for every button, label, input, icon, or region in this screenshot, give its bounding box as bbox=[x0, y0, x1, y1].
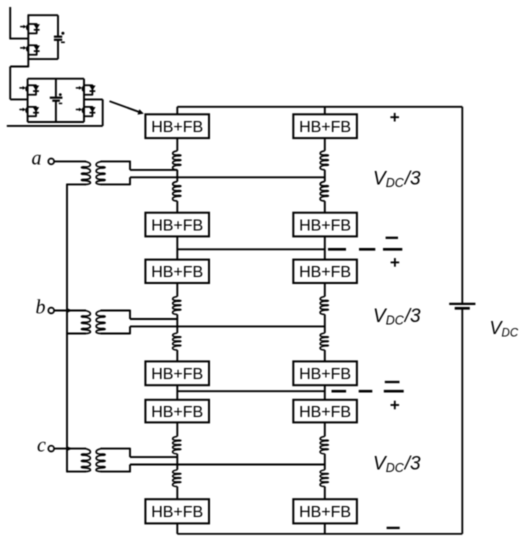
wire: converter leg 2 segment 7 bbox=[324, 487, 326, 534]
inductor Lc1 (leg1 upper arm) bbox=[173, 436, 181, 453]
wire: converter leg 1 segment 1 bbox=[176, 107, 178, 151]
wire: primary a return to neutral bbox=[66, 183, 86, 185]
plus terminal (section c top) bbox=[391, 401, 400, 410]
wire: phase a input lead bbox=[54, 160, 86, 162]
converter module HB+FB (row 3, leg 1) bbox=[145, 260, 209, 283]
plus terminal (section b top) bbox=[391, 258, 400, 267]
svg-text:HB+FB: HB+FB bbox=[151, 404, 203, 421]
svg-text:HB+FB: HB+FB bbox=[299, 119, 351, 136]
minus terminal (section b bottom) bbox=[385, 381, 400, 383]
wire: phase c input lead bbox=[54, 448, 86, 450]
inductor La1 (leg1 lower arm) bbox=[173, 182, 181, 202]
wire: half-bridge top rail bbox=[28, 14, 59, 16]
svg-text:c: c bbox=[37, 435, 46, 457]
svg-text:HB+FB: HB+FB bbox=[151, 366, 203, 383]
transformer Tb secondary winding bbox=[96, 311, 105, 334]
svg-text:HB+FB: HB+FB bbox=[151, 217, 203, 234]
wire: converter leg 2 segment 3 bbox=[324, 201, 326, 297]
transistor Q6 (FB right lower IGBT) bbox=[76, 107, 96, 116]
wire: converter leg 2 segment 6 bbox=[324, 454, 326, 470]
transistor Q2 (HB lower IGBT) bbox=[20, 45, 40, 54]
converter module HB+FB (row 4, leg 1) bbox=[145, 361, 209, 385]
capacitor C1 (HB dc-link) bbox=[54, 15, 65, 59]
inductor Lc1b (leg2 lower arm) bbox=[320, 470, 328, 487]
transformer Ta primary winding bbox=[81, 161, 90, 184]
terminal circle phase b bbox=[48, 308, 54, 314]
wire: FB output (right-leg midpoint) bbox=[84, 98, 103, 100]
converter module HB+FB (row 5, leg 2) bbox=[293, 400, 357, 423]
wire: section a/b boundary bus bbox=[177, 248, 324, 250]
transistor Q5 (FB right upper IGBT) bbox=[76, 85, 96, 94]
svg-text:HB+FB: HB+FB bbox=[299, 504, 351, 521]
transformer Tb primary winding bbox=[81, 311, 90, 334]
wire: right dc bus (lower half) bbox=[461, 309, 463, 534]
wire: full-bridge left leg bbox=[27, 79, 29, 122]
junction arrow at neutral crossing (c) bbox=[67, 446, 73, 451]
minus terminal (bottom) bbox=[387, 527, 400, 529]
converter module HB+FB (row 1, leg 1) bbox=[145, 114, 209, 138]
wire: primary neutral link (a-b-c) bbox=[66, 184, 68, 471]
wire: full-bridge top rail bbox=[28, 78, 84, 80]
wire: primary b return to neutral bbox=[66, 333, 86, 335]
wire: converter leg 2 segment 5 bbox=[324, 350, 326, 436]
wire: half-bridge phase leg bbox=[27, 15, 29, 67]
svg-text:HB+FB: HB+FB bbox=[299, 217, 351, 234]
svg-text:HB+FB: HB+FB bbox=[151, 504, 203, 521]
svg-text:HB+FB: HB+FB bbox=[151, 264, 203, 281]
terminal circle phase c bbox=[48, 446, 54, 452]
transistor Q3 (FB left upper IGBT) bbox=[19, 85, 39, 94]
dashed link to dc midpoint 1 bbox=[328, 248, 402, 251]
transformer Tc secondary winding bbox=[96, 449, 105, 472]
minus terminal (section a bottom) bbox=[386, 237, 398, 239]
arrow: inset detail points to HB+FB module bbox=[110, 101, 144, 114]
transistor Q1 (HB upper IGBT) bbox=[20, 24, 40, 33]
wire: secondary a lower lead bbox=[101, 183, 131, 185]
wire: phase b input lead bbox=[54, 310, 86, 312]
inductor La1b (leg2 lower arm) bbox=[320, 182, 328, 202]
converter module HB+FB (row 4, leg 2) bbox=[293, 361, 357, 385]
converter module HB+FB (row 5, leg 1) bbox=[145, 400, 209, 423]
battery VDC bbox=[449, 304, 475, 308]
wire: full-bridge right leg bbox=[83, 79, 85, 122]
wire: converter leg 1 segment 5 bbox=[176, 350, 178, 436]
transistor Q4 (FB left lower IGBT) bbox=[19, 107, 39, 116]
wire: bottom dc bus (negative rail) bbox=[177, 533, 462, 535]
inductor La1b (leg2 upper arm) bbox=[320, 151, 328, 170]
inductor Lb1b (leg2 lower arm) bbox=[320, 333, 328, 350]
wire: primary c return to neutral bbox=[66, 471, 86, 473]
wire: converter leg 2 segment 1 bbox=[324, 107, 326, 151]
wire: right dc bus (upper half) bbox=[461, 107, 463, 303]
wire: secondary a upper lead bbox=[101, 160, 131, 162]
wire: converter leg 2 segment 4 bbox=[324, 314, 326, 333]
wire: converter leg 1 segment 4 bbox=[176, 314, 178, 333]
svg-text:a: a bbox=[32, 148, 42, 170]
wire: converter leg 1 segment 2 bbox=[176, 170, 178, 182]
wire: converter leg 1 segment 7 bbox=[176, 487, 178, 534]
svg-text:b: b bbox=[36, 297, 46, 319]
converter module HB+FB (row 2, leg 1) bbox=[145, 213, 209, 237]
svg-text:HB+FB: HB+FB bbox=[299, 366, 351, 383]
wire: half-bridge bottom rail bbox=[28, 58, 59, 60]
inductor Lc1 (leg1 lower arm) bbox=[173, 470, 181, 487]
converter module HB+FB (row 6, leg 2) bbox=[293, 499, 357, 523]
inductor Lb1 (leg1 upper arm) bbox=[173, 297, 181, 315]
wire: top dc bus (positive rail) bbox=[177, 106, 462, 108]
svg-text:HB+FB: HB+FB bbox=[151, 119, 203, 136]
wire: converter leg 2 segment 2 bbox=[324, 170, 326, 182]
wire: converter leg 1 segment 3 bbox=[176, 201, 178, 297]
converter module HB+FB (row 2, leg 2) bbox=[293, 213, 357, 237]
wire: section b/c boundary bus bbox=[177, 390, 324, 392]
svg-text:HB+FB: HB+FB bbox=[299, 404, 351, 421]
wire: secondary b lower lead bbox=[101, 333, 131, 335]
converter module HB+FB (row 3, leg 2) bbox=[293, 260, 357, 283]
converter module HB+FB (row 6, leg 1) bbox=[145, 499, 209, 523]
wire: converter leg 1 segment 6 bbox=[176, 454, 178, 470]
wire: secondary c upper lead bbox=[101, 448, 131, 450]
transformer Ta secondary winding bbox=[96, 161, 105, 184]
junction arrow at neutral crossing (b) bbox=[67, 308, 73, 313]
wire: secondary c lower lead bbox=[101, 471, 131, 473]
inductor La1 (leg1 upper arm) bbox=[173, 151, 181, 170]
wire: inset input drop bbox=[9, 7, 11, 39]
inductor Lc1b (leg2 upper arm) bbox=[320, 436, 328, 453]
plus terminal (top) bbox=[390, 113, 399, 122]
svg-text:HB+FB: HB+FB bbox=[299, 264, 351, 281]
terminal circle phase a bbox=[48, 159, 54, 165]
capacitor C2 (FB dc-link) bbox=[50, 79, 63, 122]
converter module HB+FB (row 1, leg 2) bbox=[293, 114, 357, 138]
transformer Tc primary winding bbox=[81, 449, 90, 472]
inductor Lb1b (leg2 upper arm) bbox=[320, 297, 328, 315]
wire: full-bridge bottom rail bbox=[28, 121, 84, 123]
wire: secondary b upper lead bbox=[101, 310, 131, 312]
wire: HB output to FB left-leg midpoint bbox=[10, 66, 28, 68]
dashed link to dc midpoint 2 bbox=[332, 390, 404, 393]
inductor Lb1 (leg1 lower arm) bbox=[173, 333, 181, 350]
